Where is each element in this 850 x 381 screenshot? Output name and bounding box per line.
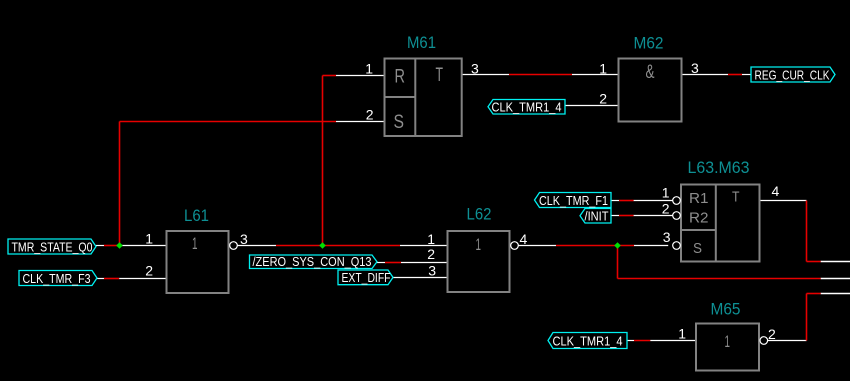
svg-text:&: & — [646, 62, 655, 83]
wire net EXT_DIFF white into L62 pin3 — [393, 277, 448, 279]
flip-flop L63.M63 pin 3 inversion bubble — [673, 242, 681, 250]
svg-text:R: R — [395, 67, 406, 88]
svg-text:1: 1 — [599, 61, 607, 77]
svg-text:L62: L62 — [467, 205, 492, 224]
wire net CLK_TMR_F1 red segment — [619, 200, 634, 202]
svg-text:2: 2 — [145, 263, 153, 279]
wire net L62_OUT red horizontal to right edge — [618, 278, 821, 280]
svg-text:1: 1 — [365, 61, 373, 77]
svg-text:3: 3 — [691, 60, 699, 76]
wire net L61_OUT white from output bubble — [237, 245, 276, 247]
svg-text:1: 1 — [427, 231, 435, 247]
wire net TMR_STATE_Q0 red vertical riser x=119 — [119, 122, 121, 246]
buffer L62 body — [448, 231, 510, 292]
wire net CLK_TMR1_4b white stub from flag — [627, 340, 634, 342]
wire net M61_OUT red segment — [509, 74, 572, 76]
wire net CLK_TMR1_4a white into M62 pin2 — [565, 105, 619, 107]
wire net L62_OUT white into L63 pin3 bubble — [634, 245, 668, 247]
svg-text:1: 1 — [192, 234, 198, 253]
flip-flop L63.M63 pin 1 inversion bubble — [673, 197, 681, 205]
svg-text:3: 3 — [663, 229, 671, 245]
svg-text:1: 1 — [662, 185, 670, 201]
buffer M65 body — [696, 324, 759, 371]
svg-text:2: 2 — [768, 326, 776, 342]
signal flag REG_CUR_CLK outline — [751, 67, 835, 82]
svg-text:2: 2 — [662, 201, 670, 217]
wire net ZERO_SYS_CON_Q13 red segment — [385, 262, 401, 264]
wire net CLK_TMR_F3 red segment — [104, 278, 119, 280]
wire net L62_OUT white from output bubble — [518, 245, 556, 247]
wire net M65_OUT white exit at right edge — [821, 293, 850, 295]
wire net L61_OUT red vertical riser x=322 — [322, 76, 324, 246]
signal flag CLK_TMR1_4 (top) outline — [488, 100, 565, 115]
junction dot net L62_OUT — [614, 242, 621, 249]
wire net ZERO_SYS_CON_Q13 white into L62 pin2 — [401, 262, 448, 264]
flip-flop L63.M63 body — [681, 185, 760, 262]
svg-text:EXT_DIFF: EXT_DIFF — [342, 271, 391, 285]
flip-flop M61 inner vertical divider — [414, 59, 416, 137]
svg-text:3: 3 — [428, 263, 436, 279]
wire net REG_CUR_CLK white into flag — [742, 74, 751, 76]
buffer L61 output inversion bubble — [230, 242, 238, 250]
svg-text:S: S — [693, 240, 702, 257]
signal flag /ZERO_SYS_CON_Q13 outline — [250, 255, 378, 269]
wire net L62_OUT white exit at right edge — [821, 278, 850, 280]
wire net M61_OUT white into M62 pin1 — [572, 74, 619, 76]
flip-flop M61 body — [385, 59, 462, 137]
flip-flop L63.M63 inner horizontal divider — [681, 229, 716, 231]
svg-text:2: 2 — [366, 107, 374, 123]
wire net L63_OUT red horizontal — [807, 261, 821, 263]
wire net REG_CUR_CLK white from M62 pin3 — [682, 74, 729, 76]
and-gate M62 body — [619, 59, 682, 122]
svg-text:1: 1 — [725, 332, 731, 351]
svg-text:1: 1 — [476, 235, 482, 254]
signal flag TMR_STATE_Q0 outline — [8, 239, 96, 254]
wire net TMR_STATE_Q0 white to L61 pin1 — [122, 245, 167, 247]
wire net M65_OUT red horizontal — [807, 293, 821, 295]
svg-text:M65: M65 — [711, 300, 741, 319]
buffer M65 output inversion bubble — [760, 337, 768, 345]
wire net CLK_TMR1_4b white into M65 pin1 — [650, 340, 696, 342]
wire net CLK_TMR_F3 white to L61 pin2 — [119, 278, 166, 280]
svg-text:4: 4 — [772, 183, 780, 199]
wire net L63_OUT red vertical drop x=806 — [806, 201, 808, 262]
wire net M61_OUT white from M61 pin3 — [462, 74, 509, 76]
svg-text:REG_CUR_CLK: REG_CUR_CLK — [755, 69, 831, 83]
svg-text:T: T — [732, 189, 740, 206]
wire net TMR_STATE_Q0 white stub from flag — [96, 245, 104, 247]
svg-text:1: 1 — [145, 231, 153, 247]
wire net M65_OUT red vertical riser x=806 — [806, 294, 808, 341]
svg-text:S: S — [394, 112, 405, 133]
wire net L61_OUT white into M61 pin1 — [336, 75, 385, 77]
buffer L61 body — [167, 231, 229, 293]
wire net INIT white into L63 pin2 bubble — [634, 215, 673, 217]
wire net INIT red segment — [619, 215, 634, 217]
svg-text:TMR_STATE_Q0: TMR_STATE_Q0 — [12, 241, 93, 255]
svg-text:1: 1 — [678, 326, 686, 342]
svg-text:M62: M62 — [634, 34, 664, 53]
svg-text:L63.M63: L63.M63 — [688, 158, 750, 177]
signal flag EXT_DIFF outline — [338, 270, 393, 285]
wire net CLK_TMR_F3 white stub from flag — [97, 278, 104, 280]
svg-text:4: 4 — [520, 231, 528, 247]
svg-text:/INIT: /INIT — [585, 210, 609, 224]
svg-text:/ZERO_SYS_CON_Q13: /ZERO_SYS_CON_Q13 — [253, 255, 372, 269]
svg-text:CLK_TMR_F1: CLK_TMR_F1 — [539, 194, 608, 208]
junction dot net TMR_STATE_Q0 — [116, 242, 123, 249]
wire net L63_OUT white from pin4 — [760, 200, 807, 202]
svg-text:L61: L61 — [184, 206, 209, 225]
wire net L61_OUT white into L62 pin1 — [400, 245, 448, 247]
flip-flop L63.M63 inner vertical divider — [715, 185, 717, 262]
junction dot net L61_OUT — [319, 242, 326, 249]
flip-flop L63.M63 pin 2 inversion bubble — [673, 212, 681, 220]
svg-text:R1: R1 — [689, 190, 709, 207]
signal flag CLK_TMR_F3 outline — [19, 271, 97, 286]
wire net L61_OUT red segment through junction — [276, 245, 400, 247]
wire net L61_OUT red horizontal to M61 R input — [323, 75, 337, 77]
svg-text:3: 3 — [471, 61, 479, 77]
svg-text:M61: M61 — [407, 33, 436, 52]
wire net INIT white stub from flag — [611, 215, 619, 217]
wire net L62_OUT red segment through junction — [556, 245, 634, 247]
wire net TMR_STATE_Q0 white into M61 pin2 — [336, 121, 385, 123]
signal flag CLK_TMR1_4 (bottom) outline — [548, 333, 627, 349]
flip-flop M61 inner horizontal divider — [385, 96, 416, 98]
svg-text:3: 3 — [240, 231, 248, 247]
wire net L63_OUT white exit at right edge — [821, 261, 850, 263]
wire net M65_OUT white from output bubble — [768, 340, 807, 342]
signal flag /INIT outline — [580, 209, 611, 224]
wire net CLK_TMR1_4b red segment — [634, 340, 650, 342]
buffer L62 output inversion bubble — [511, 242, 519, 250]
wire net CLK_TMR_F1 white stub from flag — [611, 200, 619, 202]
svg-text:2: 2 — [427, 246, 435, 262]
svg-text:CLK_TMR1_4: CLK_TMR1_4 — [553, 335, 623, 349]
wire net ZERO_SYS_CON_Q13 white stub from flag — [377, 262, 385, 264]
wire net TMR_STATE_Q0 red horizontal to M61 S input — [120, 121, 337, 123]
svg-text:T: T — [436, 65, 444, 86]
svg-text:2: 2 — [599, 91, 607, 107]
svg-text:R2: R2 — [689, 210, 709, 227]
wire net CLK_TMR_F1 white into L63 pin1 bubble — [634, 200, 673, 202]
wire net REG_CUR_CLK red segment — [728, 74, 742, 76]
svg-text:CLK_TMR_F3: CLK_TMR_F3 — [23, 272, 91, 286]
svg-text:CLK_TMR1_4: CLK_TMR1_4 — [492, 101, 562, 115]
wire net L62_OUT red vertical drop x=617 — [617, 246, 619, 279]
wire net TMR_STATE_Q0 red segment — [104, 245, 120, 247]
signal flag CLK_TMR_F1 outline — [535, 193, 612, 208]
